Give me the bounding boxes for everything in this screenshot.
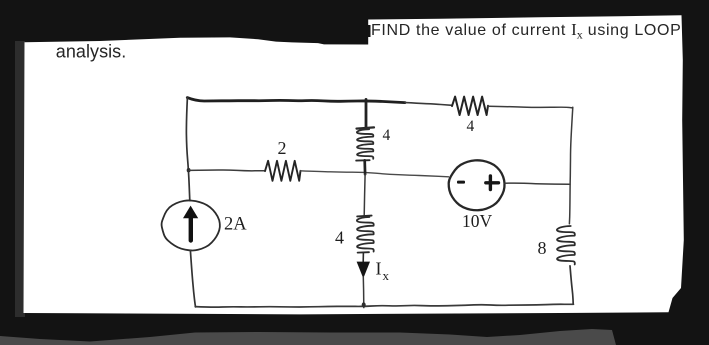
wire top right to corner	[488, 106, 572, 108]
wire coil to junction (thick stub)	[363, 160, 366, 174]
tick bottom of lower coil	[358, 251, 369, 253]
wire right vertical upper	[569, 107, 572, 224]
junction knot at left wire	[187, 168, 191, 172]
resistor R4 upper coil	[357, 129, 373, 159]
svg-text:I: I	[376, 259, 382, 279]
resistor R2 zigzag	[265, 161, 301, 181]
tick bottom of upper coil	[356, 159, 369, 161]
resistor R4 lower coil	[357, 217, 374, 252]
wire middle center	[301, 171, 449, 177]
voltage source circle 10V	[449, 160, 505, 210]
resistor R4 top right zigzag	[452, 97, 488, 115]
wire bottom	[195, 304, 573, 307]
bottom grey shadow strip below black edge	[0, 329, 616, 345]
wire middle-branch stub thick	[365, 99, 368, 127]
svg-text:10V: 10V	[462, 211, 493, 231]
small black notch left of FIND	[366, 25, 370, 37]
wire top (thick left section)	[187, 98, 405, 103]
svg-text:analysis.: analysis.	[56, 42, 126, 62]
wire middle right	[505, 183, 570, 184]
left page edge grey strip	[15, 41, 25, 317]
wire junction to lower coil	[363, 174, 366, 215]
minus sign	[457, 181, 465, 184]
Ix arrow stem and head	[362, 253, 364, 262]
2A arrow	[189, 217, 193, 241]
wire top thin before resistor	[405, 103, 452, 106]
resistor R8 coil	[557, 226, 575, 265]
tick top of upper coil	[357, 127, 375, 128]
junction blob at bottom wire	[362, 302, 366, 307]
wire arrow to bottom	[362, 277, 365, 308]
svg-text:8: 8	[538, 238, 547, 258]
svg-text:x: x	[383, 268, 390, 283]
current source circle 2A	[162, 200, 220, 250]
svg-text:FIND the value of current Ix u: FIND the value of current Ix using LOOP	[371, 20, 681, 42]
svg-text:4: 4	[335, 228, 344, 248]
tick top of lower coil	[357, 215, 371, 218]
wire right vertical lower	[570, 266, 573, 304]
wire left vertical lower	[190, 251, 195, 307]
svg-text:2A: 2A	[224, 215, 247, 235]
svg-text:2: 2	[278, 138, 287, 158]
svg-text:4: 4	[383, 127, 391, 144]
plus sign	[486, 176, 499, 190]
svg-text:4: 4	[467, 118, 475, 135]
wire left vertical upper	[186, 97, 189, 200]
